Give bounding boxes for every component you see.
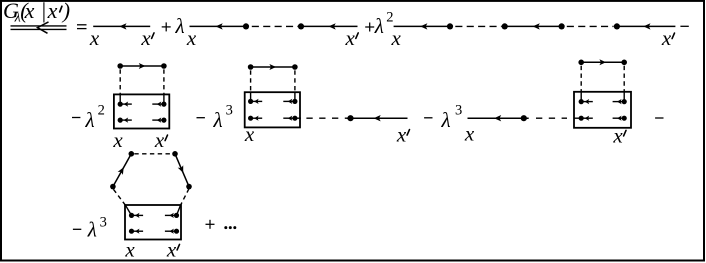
interaction box C (574, 92, 631, 128)
exchange line above box A (117, 63, 166, 69)
exchange line above box B (248, 64, 298, 70)
lower left propagator stub in box C (579, 116, 593, 121)
svg-text:x: x (244, 122, 255, 146)
node x (term 6) (464, 122, 475, 146)
node x (box B) (244, 122, 255, 146)
svg-text:x: x (47, 0, 58, 23)
node x (term 1) (89, 26, 100, 50)
node x' (box C) (612, 123, 626, 147)
propagator from x (term 6) (468, 115, 529, 121)
minus sign (end of row 2) (655, 117, 663, 119)
propagator to x' (term 5) (347, 115, 408, 121)
minus sign (term 6) (424, 117, 432, 119)
svg-text:λ: λ (175, 14, 185, 38)
minus sign (term 5) (197, 117, 205, 119)
svg-text:2: 2 (386, 10, 393, 26)
vertex dot (term 6) (521, 115, 527, 121)
minus sign (term 4) (72, 117, 80, 119)
svg-text:x: x (89, 26, 100, 50)
dashed vertical link right of box B (294, 70, 296, 92)
svg-text:): ) (61, 0, 70, 23)
coefficient lambda squared (term 3) (374, 10, 394, 39)
node x' (term 2) (345, 26, 359, 50)
svg-text:λ: λ (213, 108, 223, 132)
upper right propagator stub in box D (165, 213, 179, 218)
coefficient lambda cubed (term 6) (441, 103, 463, 133)
node x' (box D) (166, 237, 180, 261)
svg-text:x: x (186, 26, 197, 50)
coefficient lambda (term 2) (175, 14, 185, 38)
exchange line above box C (578, 59, 627, 65)
node x' (box A) (154, 128, 168, 152)
lower left propagator stub in box D (129, 229, 143, 234)
lower right propagator stub in box C (613, 116, 627, 121)
stub through right edge of box B (295, 117, 301, 119)
lower right propagator stub in box A (152, 118, 166, 123)
node x (term 2) (186, 26, 197, 50)
upper left propagator stub in box C (579, 99, 593, 104)
label G_lambda(x|x') (3, 0, 70, 26)
svg-text:λ: λ (87, 218, 97, 242)
dashed link top of loop (134, 153, 172, 155)
node x' (term 3) (661, 26, 675, 50)
ellipsis dots (224, 226, 236, 229)
diagonal stub into box D right (177, 205, 181, 215)
lower left propagator stub in box B (248, 116, 262, 121)
stub links into box C (581, 92, 624, 102)
coefficient lambda cubed (term 7) (87, 215, 107, 242)
svg-text:|: | (41, 0, 47, 23)
first-order propagator chain (190, 23, 358, 29)
node x' (term 5) (396, 123, 410, 147)
svg-text:x: x (124, 237, 135, 261)
stub links into box A (120, 94, 164, 104)
interaction box B (245, 92, 300, 127)
svg-text:3: 3 (100, 215, 107, 231)
dashed vertical link left of box B (250, 70, 252, 92)
svg-text:x: x (464, 122, 475, 146)
svg-text:x: x (24, 0, 35, 23)
node x (term 3) (391, 26, 402, 50)
dashed vertical link left of box C (580, 66, 582, 92)
bare propagator x to x' (93, 23, 150, 29)
coefficient lambda cubed (term 5) (213, 103, 233, 133)
upper right propagator stub in box B (283, 99, 297, 104)
svg-text:x: x (612, 123, 623, 147)
dashed interaction line before box C (536, 117, 567, 119)
svg-text:x: x (166, 237, 177, 261)
loop propagator up-left side (110, 151, 134, 189)
svg-text:x: x (345, 26, 356, 50)
node x' (term 1) (140, 26, 154, 50)
svg-text:x: x (154, 128, 165, 152)
second-order propagator chain (394, 23, 676, 29)
svg-text:x: x (140, 26, 151, 50)
dashed interaction line after box B (306, 117, 347, 119)
svg-text:3: 3 (455, 103, 462, 119)
lower right propagator stub in box D (165, 229, 179, 234)
interaction box A (114, 94, 169, 128)
stub through left edge of box C (574, 117, 581, 119)
vertex dot (term 5) (347, 115, 353, 121)
lower right propagator stub in box B (283, 116, 297, 121)
equals sign (77, 25, 87, 29)
interaction box D (125, 205, 181, 240)
upper left propagator stub in box A (118, 102, 132, 107)
dashed vertical link left of box A (119, 69, 121, 94)
dashed vertical link right of box A (163, 69, 165, 94)
stub links into box B (251, 92, 295, 101)
coefficient lambda squared (term 4) (85, 103, 105, 133)
svg-text:λ: λ (85, 108, 95, 132)
loop propagator down-right side (172, 151, 192, 189)
upper left propagator stub in box D (129, 213, 143, 218)
diagonal stub into box D left (126, 205, 132, 215)
upper left propagator stub in box B (248, 99, 262, 104)
minus sign (term 7) (73, 228, 81, 230)
svg-text:x: x (112, 128, 123, 152)
minus sign (end of row 1) (680, 25, 688, 27)
plus sign (ellipsis term) (206, 220, 215, 229)
svg-text:x: x (661, 26, 672, 50)
upper right propagator stub in box C (613, 99, 627, 104)
plus sign (term 2) (162, 22, 171, 31)
lower left propagator stub in box A (118, 118, 132, 123)
svg-text:λ: λ (441, 108, 451, 132)
svg-text:2: 2 (98, 103, 105, 119)
plus sign (term 3) (365, 23, 374, 32)
dashed link from lower-right vertex to box corner (181, 189, 190, 206)
dressed double-line propagator (11, 22, 67, 33)
hexagonal loop: dashed link from box corner to lower-left vertex (113, 189, 126, 206)
upper right propagator stub in box A (152, 102, 166, 107)
node x (box A) (112, 128, 123, 152)
svg-text:x: x (391, 26, 402, 50)
svg-text:x: x (396, 123, 407, 147)
svg-text:3: 3 (226, 103, 233, 119)
dashed vertical link right of box C (623, 66, 625, 92)
svg-text:λ: λ (374, 14, 384, 38)
node x (box D) (124, 237, 135, 261)
